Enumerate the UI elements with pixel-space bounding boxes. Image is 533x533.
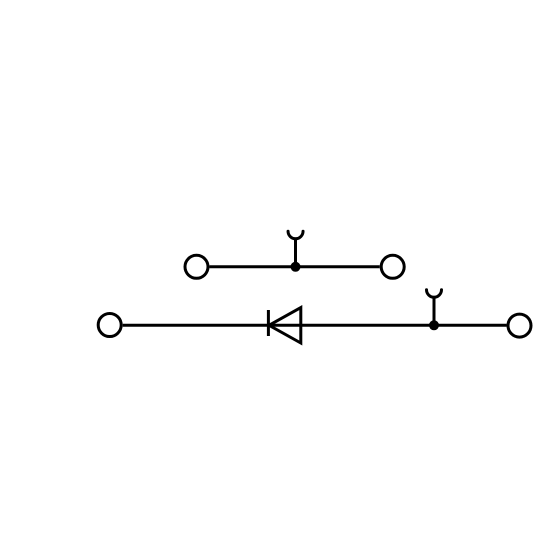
terminal circle: upper level left xyxy=(185,255,208,278)
diode (cathode bar + triangle, pointing left) xyxy=(268,308,300,343)
wire: upper level conductor xyxy=(210,265,380,268)
junction: upper level tap node xyxy=(291,262,301,272)
test tap socket: lower level (stem + cup) xyxy=(427,290,442,326)
terminal circle: lower level right xyxy=(508,314,531,337)
terminal circle: upper level right xyxy=(381,255,404,278)
test tap socket: upper level (stem + cup) xyxy=(288,231,303,267)
terminal circle: lower level left xyxy=(98,314,121,337)
junction: lower level tap node xyxy=(429,320,439,330)
wire: lower level conductor xyxy=(123,324,507,327)
